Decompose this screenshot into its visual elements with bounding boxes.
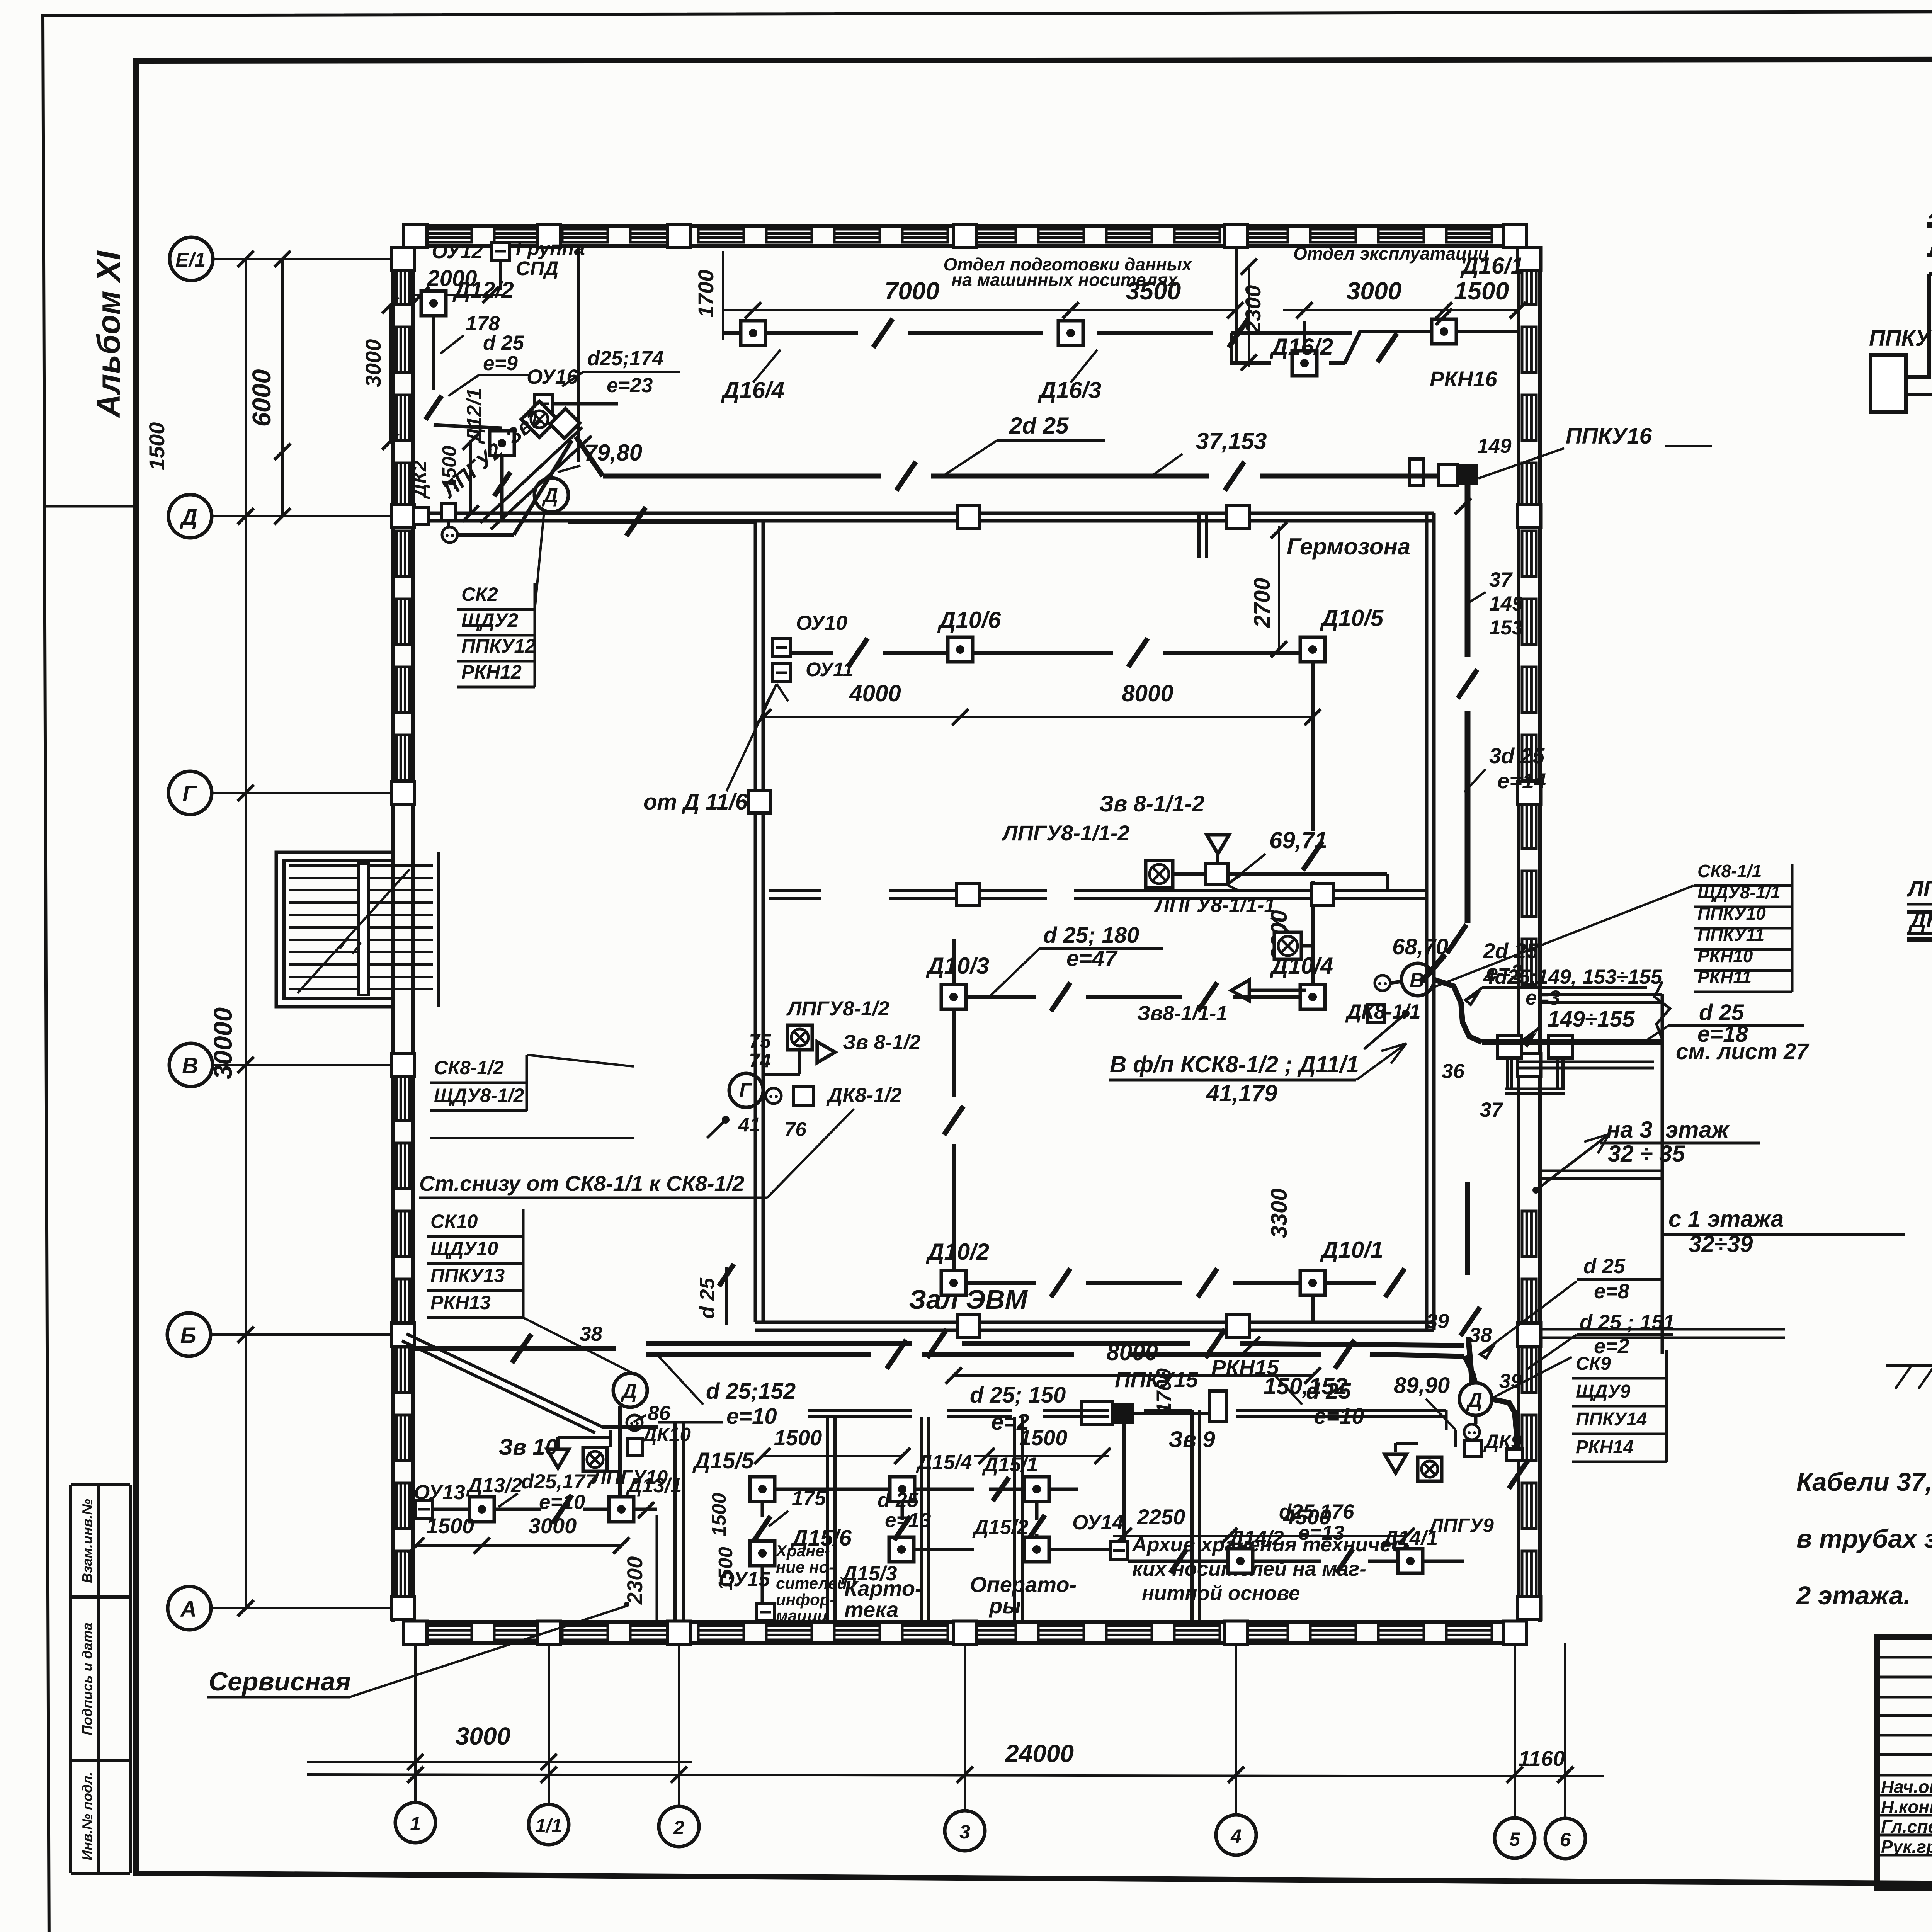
OU12 call point [492, 242, 509, 260]
svg-text:СК8-1/2: СК8-1/2 [434, 1057, 504, 1078]
left margin divider [43, 505, 136, 508]
svg-text:ППКУ14: ППКУ14 [1576, 1409, 1647, 1430]
axis line Д [212, 515, 413, 517]
mid partition column A [957, 883, 979, 906]
svg-text:1500: 1500 [1454, 277, 1509, 305]
svg-text:d 25; 150: d 25; 150 [970, 1383, 1066, 1408]
svg-text:Г: Г [739, 1079, 753, 1102]
lamp LPGU8-1/1-1 [1274, 932, 1301, 959]
wire D15/5 down to D15/6 [761, 1502, 764, 1517]
svg-text:Д13/2: Д13/2 [466, 1474, 522, 1497]
corridor trunk wire upper right of node D [646, 1341, 912, 1346]
axis circle 5 [1495, 1818, 1535, 1858]
trunk curve below node D right [1492, 1399, 1516, 1449]
svg-text:Д: Д [621, 1380, 637, 1403]
svg-text:Д: Д [1466, 1389, 1482, 1412]
svg-text:Д12/2: Д12/2 [452, 277, 514, 303]
svg-text:Д14/2: Д14/2 [1228, 1527, 1284, 1549]
axis line 5 [1514, 1643, 1516, 1818]
svg-text:2d 25: 2d 25 [1483, 939, 1539, 963]
detector D10/2 [941, 1270, 966, 1295]
svg-text:Зв 8-1/1-2: Зв 8-1/1-2 [1099, 791, 1204, 816]
OU11 call point [772, 664, 790, 682]
svg-text:РКН10: РКН10 [1697, 946, 1753, 966]
vertical dimension line 30000 [245, 259, 247, 1608]
detector D15/6 [750, 1541, 775, 1566]
svg-text:2d 25: 2d 25 [1009, 413, 1069, 439]
svg-text:ЩДУ8-1/1: ЩДУ8-1/1 [1697, 882, 1781, 902]
svg-text:1700: 1700 [694, 270, 718, 318]
svg-text:37,153: 37,153 [1196, 428, 1267, 454]
svg-text:89,90: 89,90 [1394, 1373, 1450, 1398]
axis line А [211, 1607, 413, 1609]
hall bottom wall [755, 1321, 1434, 1324]
leader SK10 stack down [523, 1318, 638, 1376]
svg-text:2700: 2700 [1250, 578, 1275, 628]
mid partition step near lamp [1386, 874, 1389, 891]
svg-text:РКН11: РКН11 [1697, 967, 1752, 987]
detector D13/2 [469, 1497, 494, 1522]
building top wall with windows [413, 224, 1519, 228]
svg-text:тека: тека [844, 1597, 898, 1622]
svg-text:ОУ14: ОУ14 [1072, 1511, 1124, 1534]
PPKU15 box black [1113, 1403, 1134, 1424]
svg-text:на 3 этаж: на 3 этаж [1606, 1117, 1730, 1143]
detector D15/5 [750, 1477, 775, 1502]
svg-text:ЩДУ8-1/2: ЩДУ8-1/2 [434, 1085, 524, 1106]
bell Zv8-1/2 [817, 1042, 835, 1063]
svg-text:d25;174: d25;174 [587, 347, 663, 370]
svg-text:175: 175 [792, 1487, 827, 1510]
axis circle 6 [1545, 1818, 1585, 1859]
corridor diagonal wall from stair area [406, 1334, 602, 1427]
DK8-1/1 cluster [1375, 975, 1390, 991]
wire detector loop D16 row [723, 331, 858, 335]
stairwell bump-out walls [276, 852, 393, 1007]
leader SK2 stack to node D [535, 512, 544, 610]
svg-text:РКН16: РКН16 [1430, 367, 1497, 391]
RKN15 box [1209, 1391, 1226, 1422]
svg-text:Операто-: Операто- [970, 1572, 1077, 1597]
wire PPKU15 down [1122, 1424, 1126, 1550]
detector D16/4 [741, 321, 765, 345]
svg-text:1500: 1500 [426, 1514, 474, 1538]
svg-text:А: А [180, 1597, 197, 1622]
RKN16 box [1410, 459, 1423, 485]
trunk wire corridor 2d25 [576, 437, 603, 476]
detector D16/1 [1432, 319, 1456, 344]
building left wall with windows [391, 246, 395, 1622]
partition wall x2150 [826, 1417, 829, 1622]
axis circle 1/1 [529, 1804, 569, 1845]
svg-text:СК10: СК10 [430, 1211, 478, 1232]
svg-text:3300: 3300 [1267, 1188, 1292, 1238]
svg-text:мации: мации [776, 1607, 827, 1625]
svg-text:Группа: Группа [516, 237, 585, 259]
column hall left wall axis G [748, 791, 770, 813]
trunk wire V to D vertical [1465, 553, 1471, 657]
svg-text:d 25: d 25 [483, 332, 525, 354]
column on corridor wall axis 3 [957, 506, 980, 528]
axis circle В [169, 1043, 213, 1087]
annex right wall vertical [1661, 994, 1664, 1354]
svg-text:75: 75 [749, 1030, 771, 1052]
lamp LPGU8-1/2 [787, 1025, 812, 1050]
svg-text:РКН13: РКН13 [430, 1292, 491, 1313]
detector D14/2 [1228, 1549, 1253, 1573]
wires node D cluster [556, 1437, 560, 1448]
OU16 call point [535, 395, 553, 413]
svg-text:Д15/5: Д15/5 [692, 1448, 754, 1473]
partition between SPD room and data-prep room [577, 246, 580, 462]
svg-text:1700: 1700 [1153, 1368, 1175, 1414]
svg-text:2 этажа.: 2 этажа. [1796, 1581, 1911, 1610]
annex break squiggle [1655, 981, 1670, 1039]
riser pair lines [1506, 1057, 1509, 1089]
svg-text:Инв.№ подл.: Инв.№ подл. [79, 1772, 95, 1860]
svg-text:В: В [1410, 969, 1424, 992]
corridor trunk wire upper left of node D [413, 1346, 616, 1351]
detector D10/1 [1300, 1270, 1325, 1295]
axis circle А [168, 1587, 211, 1630]
riser top boxes [1497, 1036, 1521, 1058]
riser cross lines [1519, 1061, 1654, 1063]
svg-text:d25,176: d25,176 [1279, 1500, 1354, 1523]
partition wall x1770 [673, 1422, 677, 1622]
svg-text:24000: 24000 [1005, 1740, 1074, 1767]
svg-text:32 ÷ 35: 32 ÷ 35 [1608, 1141, 1685, 1167]
svg-text:Н.контр.: Н.контр. [1881, 1797, 1932, 1817]
wire OU14 row [1128, 1560, 1228, 1563]
wire D16/2 to D16/1 [1329, 361, 1345, 365]
svg-text:2: 2 [673, 1817, 684, 1838]
svg-text:Взам.инв.№: Взам.инв.№ [79, 1499, 95, 1583]
DK2 contact symbol [442, 527, 457, 543]
svg-text:Альбом XI: Альбом XI [90, 250, 127, 418]
svg-text:РКН14: РКН14 [1576, 1437, 1634, 1458]
svg-text:Д15/2: Д15/2 [972, 1516, 1028, 1539]
wire OU12 down to D12/2 [499, 260, 502, 290]
wire PPKU15 to RKN15 [1134, 1412, 1209, 1415]
svg-text:ППКУ11: ППКУ11 [1697, 925, 1764, 945]
annex lower boundary lines [1540, 1337, 1785, 1339]
OU14 call point [1110, 1542, 1128, 1560]
Uzel V left vertical wire [1906, 274, 1929, 377]
svg-text:3000: 3000 [456, 1722, 510, 1750]
svg-text:ОУ11: ОУ11 [806, 658, 854, 680]
svg-text:149: 149 [1477, 435, 1512, 457]
svg-text:ЩДУ9: ЩДУ9 [1576, 1381, 1631, 1402]
svg-text:ЛПГУ9: ЛПГУ9 [1428, 1514, 1494, 1536]
wire bend down to D16/2 level [1231, 333, 1271, 363]
axis line 6 [1564, 1643, 1566, 1818]
wire hall row2 [966, 995, 1036, 999]
building right wall with windows [1517, 246, 1520, 1622]
svg-text:37: 37 [1489, 568, 1513, 591]
svg-text:Д: Д [542, 484, 558, 507]
diagonal heavy wire [456, 533, 514, 537]
svg-text:Д16/1: Д16/1 [1460, 253, 1524, 279]
svg-text:5: 5 [1509, 1828, 1520, 1850]
germo-zone partition stub [1197, 513, 1201, 558]
svg-text:ДК: ДК [1908, 907, 1932, 932]
column on corridor wall axis 4 [1227, 506, 1249, 528]
lamp LPGU8-1/1-2 [1146, 861, 1173, 888]
svg-text:37: 37 [1480, 1099, 1503, 1121]
node circle V junction [1401, 963, 1434, 996]
svg-text:Д10/2: Д10/2 [925, 1239, 989, 1265]
corridor trunk wire lower [646, 1352, 871, 1357]
svg-text:2250: 2250 [1137, 1505, 1185, 1529]
signature table rows [1877, 1656, 1932, 1659]
leader d25;151 [1526, 1335, 1577, 1370]
detector D10/4 [1300, 985, 1325, 1009]
svg-text:ЩДУ10: ЩДУ10 [430, 1238, 498, 1259]
svg-text:ППКУ16: ППКУ16 [1566, 423, 1652, 449]
svg-text:3: 3 [959, 1821, 970, 1843]
PPKU16 white box [1438, 464, 1458, 485]
partition wall x2400 [920, 1417, 923, 1622]
bell Zv8-1/1-2 [1207, 835, 1229, 854]
axis line Е/1 [213, 258, 413, 260]
svg-text:3000: 3000 [361, 339, 385, 388]
bottom dimension line 24000 [307, 1774, 1604, 1776]
svg-text:1500: 1500 [708, 1493, 730, 1536]
axis circle 3 [945, 1811, 985, 1851]
DK2 call point box [441, 503, 456, 521]
mid partition lines row [769, 889, 821, 892]
svg-text:e=13: e=13 [885, 1509, 931, 1532]
svg-text:6: 6 [1560, 1829, 1571, 1850]
svg-text:d 25; 180: d 25; 180 [1043, 923, 1139, 948]
axis line 1/1 [548, 1643, 550, 1804]
svg-text:e=14: e=14 [1497, 769, 1546, 793]
wire D15/1 down D15/2 [1035, 1502, 1039, 1520]
svg-text:68,70: 68,70 [1392, 934, 1448, 959]
wire D15/4 down to D15/3 [901, 1502, 904, 1520]
svg-text:36: 36 [1442, 1060, 1464, 1083]
svg-text:2300: 2300 [622, 1556, 647, 1605]
svg-text:1/1: 1/1 [535, 1815, 562, 1837]
wire lamp down to node [798, 1050, 801, 1074]
svg-text:39: 39 [1426, 1310, 1449, 1333]
stairwell right boundary [437, 852, 440, 1007]
svg-text:Зв 10: Зв 10 [498, 1435, 558, 1460]
DK2 wall box [413, 508, 429, 525]
leader SK8-1/1 stack [1434, 886, 1694, 987]
mid partition column B [1311, 883, 1334, 906]
axis circle Г [168, 771, 212, 815]
axis line 1 [414, 1643, 417, 1803]
wire D16/1 to wall [1457, 330, 1519, 333]
stairwell arrow diagonal [298, 869, 410, 993]
tick on trunk [1244, 1337, 1260, 1353]
svg-text:Ст.снизу от СК8-1/1 к СК8-1/2: Ст.снизу от СК8-1/1 к СК8-1/2 [419, 1171, 744, 1196]
dimension line 1500 3000 bottom-left [416, 1544, 621, 1547]
svg-text:Д10/3: Д10/3 [925, 953, 989, 979]
leader SK9 stack to node [1492, 1357, 1572, 1398]
leader d25 e=8 [1480, 1281, 1577, 1354]
wire OU16 right [553, 402, 618, 406]
axis circle 4 [1216, 1815, 1256, 1855]
wire D15/2 right [1049, 1548, 1113, 1551]
OU10 call point [772, 639, 790, 656]
riser bottom connector [1505, 1088, 1565, 1090]
junction dot below V [1402, 1010, 1410, 1017]
svg-text:Е/1: Е/1 [175, 249, 206, 271]
svg-text:инфор-: инфор- [776, 1590, 835, 1609]
svg-text:нитной основе: нитной основе [1142, 1582, 1300, 1605]
svg-text:СПД: СПД [516, 257, 558, 279]
svg-text:Д10/1: Д10/1 [1320, 1237, 1383, 1263]
svg-text:см. лист 27: см. лист 27 [1676, 1039, 1810, 1064]
svg-text:Хране-: Хране- [775, 1542, 830, 1560]
axis circle Д [168, 495, 212, 538]
svg-text:Гермозона: Гермозона [1287, 534, 1410, 560]
svg-text:69,71: 69,71 [1269, 827, 1327, 853]
column hall bottom axis 4 [1227, 1315, 1249, 1337]
stairwell treads [289, 864, 433, 867]
column hall bottom axis 3 [957, 1315, 980, 1337]
annex lower lines [1540, 1170, 1662, 1172]
svg-text:Рук.гр.: Рук.гр. [1881, 1837, 1932, 1857]
dimension row1 4000/8000 [763, 716, 1313, 718]
detector D15/3 [889, 1537, 914, 1562]
svg-text:ППКУ13: ППКУ13 [430, 1265, 505, 1286]
wire hall row1 [789, 651, 833, 655]
svg-text:ЛПГУ; Зв: ЛПГУ; Зв [1906, 876, 1932, 901]
svg-text:Гл.спец.: Гл.спец. [1881, 1816, 1932, 1837]
svg-text:4: 4 [1230, 1825, 1242, 1847]
Uzel V wire DK into box [1927, 253, 1932, 257]
svg-text:4d25;149, 153÷155: 4d25;149, 153÷155 [1483, 966, 1663, 988]
svg-text:e=3: e=3 [1526, 986, 1560, 1009]
LPGU2 lamp rotated [521, 401, 557, 437]
PPKU15 box white [1082, 1402, 1113, 1424]
arrow to riser dot [1532, 1187, 1539, 1194]
svg-text:3000: 3000 [529, 1514, 577, 1538]
wire D12/1 down to diagonal [500, 456, 504, 518]
OU15 call point [757, 1603, 774, 1621]
svg-text:ОУ16: ОУ16 [527, 366, 578, 388]
leader Servisnaya [350, 1605, 628, 1697]
svg-text:Зал ЭВМ: Зал ЭВМ [909, 1284, 1028, 1315]
wire hall row3 [966, 1281, 1036, 1285]
svg-text:Д10/6: Д10/6 [937, 607, 1001, 633]
svg-text:СК2: СК2 [461, 583, 498, 605]
svg-text:3500: 3500 [1126, 277, 1181, 305]
svg-text:ДК8-1/1: ДК8-1/1 [1345, 1000, 1421, 1023]
svg-text:ППКУ: ППКУ [1869, 326, 1932, 351]
svg-text:сителей: сителей [776, 1574, 847, 1592]
svg-text:1160: 1160 [1519, 1746, 1565, 1770]
bottom rooms top partition [808, 1409, 912, 1412]
svg-text:ЩДУ2: ЩДУ2 [461, 609, 518, 631]
underline box extra [430, 1137, 634, 1139]
axis circle 2 [659, 1806, 699, 1847]
svg-text:Д16/4: Д16/4 [721, 377, 784, 403]
svg-text:7000: 7000 [884, 277, 939, 305]
DK10 symbol [627, 1415, 642, 1430]
detector D10/5 [1300, 637, 1325, 662]
axis line Б [211, 1333, 413, 1336]
axis line 3 [964, 1643, 966, 1811]
node circle D corridor-right [1459, 1383, 1492, 1415]
svg-text:Подпись и дата: Подпись и дата [79, 1622, 95, 1735]
diagonal partition SPD corner [480, 427, 582, 523]
detector D10/6 [948, 637, 973, 662]
detector D16/2 [1292, 351, 1317, 376]
node circle G junction [729, 1073, 763, 1107]
svg-text:d 25: d 25 [878, 1489, 919, 1512]
svg-text:ППКУ12: ППКУ12 [461, 635, 536, 657]
svg-text:ЛПГУ8-1/2: ЛПГУ8-1/2 [786, 997, 889, 1020]
svg-text:d 25;152: d 25;152 [706, 1379, 796, 1404]
detector D12/2 [421, 291, 446, 316]
Uzel G ground line [1886, 1364, 1932, 1367]
svg-text:ОУ13: ОУ13 [414, 1481, 465, 1504]
svg-text:e=13: e=13 [1298, 1522, 1344, 1544]
svg-text:В ф/п КСК8-1/2 ; Д11/1: В ф/п КСК8-1/2 ; Д11/1 [1110, 1051, 1359, 1077]
svg-text:153: 153 [1489, 616, 1523, 639]
svg-text:30000: 30000 [209, 1007, 238, 1079]
svg-text:Зв 9: Зв 9 [1168, 1427, 1215, 1452]
svg-text:ние но-: ние но- [776, 1558, 834, 1576]
node circle D top-left [534, 478, 568, 512]
top rooms bottom wall / hall top corridor wall [413, 512, 1434, 515]
dimension 2000 line [413, 294, 502, 296]
leader 89,90 to wire [1426, 1399, 1456, 1430]
wire D15/3 right [914, 1548, 974, 1551]
axis circle Е/1 [170, 237, 213, 281]
svg-text:1: 1 [410, 1813, 421, 1835]
svg-text:1500: 1500 [714, 1547, 736, 1590]
svg-text:В: В [182, 1053, 198, 1078]
wire OU13 to D13/1 [433, 1508, 469, 1511]
Uzel V wire PPKU-RKN left [1906, 393, 1932, 396]
svg-text:d25,177: d25,177 [521, 1470, 597, 1493]
svg-text:Б: Б [180, 1323, 196, 1348]
svg-text:Д16/2: Д16/2 [1269, 334, 1333, 360]
trunk wire from PPKU16 down [1465, 485, 1471, 553]
vertical dim stub 1700 [722, 251, 724, 340]
svg-text:от Д 11/6: от Д 11/6 [643, 789, 748, 815]
svg-text:150,152: 150,152 [1264, 1373, 1347, 1399]
svg-text:РКН12: РКН12 [461, 661, 522, 683]
svg-text:Д13/1: Д13/1 [626, 1474, 682, 1497]
wire lamp to bell junction [1173, 872, 1206, 876]
svg-text:e=9: e=9 [483, 352, 518, 375]
partition wall x2630 [1013, 1417, 1016, 1622]
axis circle 1 [395, 1803, 435, 1843]
wire D10/5 down [1311, 662, 1315, 831]
dimension line 3000/1500 top right [1283, 309, 1519, 311]
svg-text:e=23: e=23 [607, 374, 653, 397]
annex upper boundary [1540, 993, 1662, 996]
svg-text:149÷155: 149÷155 [1548, 1007, 1635, 1032]
DK9 symbol [1464, 1424, 1480, 1440]
svg-text:d 25: d 25 [696, 1277, 719, 1319]
title block outline [1877, 1637, 1932, 1889]
dimension 1500 above D15/1 [974, 1455, 1109, 1457]
detector D15/4 [890, 1477, 915, 1502]
detector D16/3 [1058, 321, 1083, 345]
wires node D right cluster [1394, 1443, 1397, 1452]
svg-text:3000: 3000 [1347, 277, 1401, 305]
dimension row3 8000 [954, 1374, 1313, 1377]
svg-text:ППКУ10: ППКУ10 [1697, 903, 1766, 923]
svg-text:Зв8-1/1-1: Зв8-1/1-1 [1137, 1002, 1228, 1025]
